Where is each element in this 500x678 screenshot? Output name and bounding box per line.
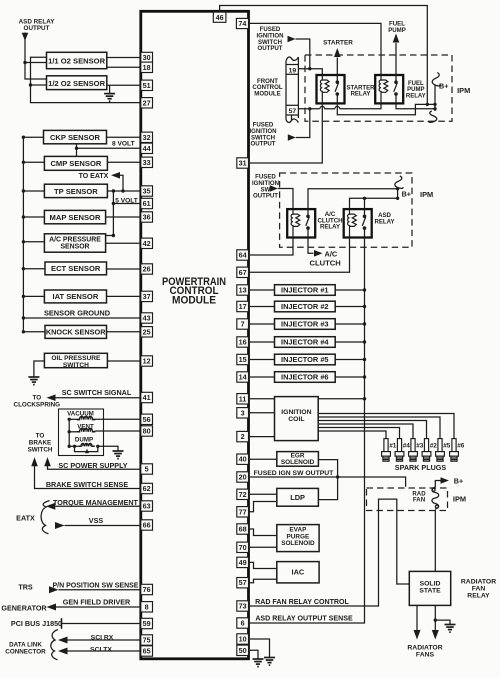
- pin 32 (PCM left): [141, 132, 153, 142]
- svg-text:36: 36: [143, 213, 151, 222]
- box IAC: [249, 562, 277, 568]
- wire ignition coil to spark plug #1: [318, 431, 386, 436]
- pin 37 (PCM left): [141, 291, 153, 301]
- pin 10 (PCM right): [237, 634, 249, 644]
- node FCM57 branch: [308, 107, 311, 110]
- node ASD rail at injector 4: [363, 340, 366, 343]
- box IGNITION COIL: [275, 397, 319, 441]
- arrow FUEL PUMP output: [393, 34, 400, 43]
- wire ignition coil to spark plug #6: [318, 414, 454, 437]
- svg-text:67: 67: [239, 268, 247, 277]
- svg-text:56: 56: [143, 415, 151, 424]
- arrow A/C clutch: [314, 250, 323, 257]
- svg-text:12: 12: [143, 357, 151, 366]
- svg-text:7: 7: [241, 320, 245, 329]
- sensor CKP SENSOR: [23, 136, 43, 138]
- ground below oil pressure switch: [28, 377, 39, 385]
- solenoid coil DUMP: [78, 444, 95, 447]
- wire pin 3 to ignition coil: [249, 412, 275, 414]
- svg-text:CKP SENSOR: CKP SENSOR: [50, 133, 101, 142]
- wire 1/1 O2 to pin 30: [107, 57, 141, 59]
- wire starter relay contact to starter: [336, 58, 338, 76]
- pin 40 (PCM right): [237, 454, 249, 464]
- svg-text:#6: #6: [457, 443, 465, 450]
- wire dump to ground: [98, 446, 118, 450]
- svg-text:8 VOLT: 8 VOLT: [112, 140, 135, 147]
- wire pin 20 fused ign sw output: [249, 477, 406, 487]
- svg-text:FUELPUMPRELAY: FUELPUMPRELAY: [406, 81, 426, 100]
- wire SC power supply pin 5: [48, 466, 141, 469]
- pin 15 (PCM right): [237, 354, 249, 364]
- svg-text:1/2 O2 SENSOR: 1/2 O2 SENSOR: [48, 79, 105, 88]
- wire SCI RX pin 75: [68, 639, 141, 641]
- pin 31 (PCM right): [237, 158, 249, 168]
- wire fuel pump relay contact to pump: [395, 43, 397, 75]
- pin 68 (PCM right): [237, 524, 249, 534]
- node 5V pin61 junction: [112, 202, 115, 205]
- svg-text:16: 16: [239, 338, 247, 347]
- ground for dump solenoid: [113, 451, 124, 459]
- svg-text:BRAKE SWITCH SENSE: BRAKE SWITCH SENSE: [46, 480, 128, 489]
- wire pin 10 to ground: [249, 639, 270, 657]
- pin 27 (PCM left): [141, 98, 153, 108]
- svg-text:FUSEDIGNITIONSWITCHOUTPUT: FUSEDIGNITIONSWITCHOUTPUT: [249, 122, 276, 148]
- pin 63 (PCM left): [141, 501, 153, 511]
- svg-text:A/C: A/C: [325, 249, 338, 258]
- svg-text:INJECTOR #4: INJECTOR #4: [281, 338, 329, 347]
- svg-text:37: 37: [143, 292, 151, 301]
- svg-text:POWERTRAINCONTROLMODULE: POWERTRAINCONTROLMODULE: [162, 276, 226, 306]
- pin 30 (PCM left): [141, 52, 153, 62]
- wire pin 74 to fuel pump relay coil: [249, 23, 382, 75]
- node ASD rail at injector 2: [363, 305, 366, 308]
- pin 50 (PCM right): [237, 645, 249, 655]
- sensor MAP SENSOR: [23, 216, 44, 218]
- box SOLID STATE: [409, 571, 450, 605]
- svg-text:46: 46: [216, 13, 224, 22]
- wire FCM 57 run: [298, 108, 319, 110]
- svg-text:75: 75: [143, 636, 151, 645]
- wire SC switch signal pin 41: [56, 397, 141, 399]
- svg-text:CLUTCH: CLUTCH: [310, 259, 341, 268]
- svg-text:74: 74: [238, 19, 246, 28]
- pin 43 (PCM left): [141, 313, 153, 323]
- wire EGR to fused ign node: [318, 460, 337, 477]
- svg-text:RADIATORFANS: RADIATORFANS: [407, 644, 442, 658]
- svg-text:#1: #1: [389, 443, 397, 450]
- dump lower winding loop: [75, 446, 98, 451]
- wire B+ vertical (IPM2): [397, 187, 399, 198]
- svg-text:20: 20: [239, 473, 247, 482]
- wire A/C pressure to pin 42: [106, 242, 141, 244]
- node B+ line2: [433, 103, 436, 106]
- svg-text:14: 14: [239, 373, 247, 382]
- svg-text:49: 49: [239, 558, 247, 567]
- speed control servo solenoid box: [59, 409, 104, 456]
- node fused ign junction: [336, 475, 339, 478]
- injector box INJECTOR #6: [249, 376, 275, 378]
- wire B+ feed to solid state relay: [435, 481, 440, 488]
- svg-text:ECT SENSOR: ECT SENSOR: [51, 264, 101, 273]
- pin 33 (PCM left): [141, 157, 153, 167]
- node B+ line3: [433, 107, 436, 110]
- svg-text:INJECTOR #5: INJECTOR #5: [281, 355, 329, 364]
- svg-text:TRS: TRS: [18, 583, 33, 592]
- bottom connector squiggle (IPM 1): [428, 111, 437, 122]
- arrow SC power to brake switch: [44, 457, 51, 466]
- svg-text:TO EATX: TO EATX: [79, 173, 109, 180]
- PCM outer box: [141, 11, 249, 659]
- pin 46 (PCM top): [213, 12, 226, 22]
- svg-text:KNOCK SENSOR: KNOCK SENSOR: [46, 328, 106, 337]
- wire torque management pin 63: [56, 505, 141, 507]
- svg-text:INJECTOR #2: INJECTOR #2: [281, 302, 329, 311]
- wire ignition coil to spark plug #2: [318, 421, 426, 437]
- svg-text:B+: B+: [402, 189, 411, 198]
- svg-text:SPARK PLUGS: SPARK PLUGS: [395, 463, 447, 472]
- spark plug #3: [412, 436, 414, 439]
- arrow gen field to generator: [47, 604, 57, 611]
- svg-text:57: 57: [289, 108, 297, 115]
- wire vacuum coil to pin 56: [93, 418, 141, 420]
- pin 59 (PCM left): [141, 618, 153, 628]
- box LDP: [249, 493, 277, 495]
- pin 11 (PCM right): [237, 394, 249, 404]
- svg-text:RAD FAN RELAY CONTROL: RAD FAN RELAY CONTROL: [255, 598, 349, 606]
- pin 36 (PCM left): [141, 212, 153, 222]
- svg-text:ASD RELAYOUTPUT: ASD RELAYOUTPUT: [19, 19, 56, 33]
- wire CKP to pin 32: [107, 136, 141, 138]
- box EGR SOLENOID: [249, 458, 277, 460]
- svg-text:11: 11: [239, 394, 247, 403]
- relay A/C CLUTCH RELAY: [287, 209, 315, 237]
- svg-text:#2: #2: [430, 443, 438, 450]
- relay FUEL PUMP RELAY: [375, 75, 403, 103]
- wire 5 volt bus: [106, 191, 114, 236]
- svg-text:2: 2: [241, 432, 245, 441]
- svg-text:5: 5: [145, 465, 149, 474]
- spark plug #6: [453, 436, 455, 439]
- arrow down from ASD RELAY OUTPUT: [22, 33, 29, 41]
- node ASD rail at injector 3: [363, 322, 366, 325]
- arrow brake switch sense: [31, 457, 38, 466]
- node ASD rail at pin 11: [363, 397, 366, 400]
- node 5V at TP wire: [112, 189, 115, 192]
- svg-text:3: 3: [241, 408, 245, 417]
- svg-text:INJECTOR #3: INJECTOR #3: [281, 320, 329, 329]
- pin 61 (PCM left): [141, 198, 153, 208]
- pin 57 (PCM right): [237, 578, 249, 588]
- wire fused ign to A/C clutch relay coil: [278, 189, 293, 214]
- wire brake switch sense pin 62: [35, 466, 141, 489]
- wire solid state to radiator fans left: [416, 605, 418, 630]
- arrow radiator fan left: [414, 630, 421, 640]
- svg-text:72: 72: [239, 490, 247, 499]
- wire ignition coil to spark plug #3: [318, 424, 413, 436]
- pin 70 (PCM right): [237, 542, 249, 552]
- svg-text:51: 51: [143, 81, 151, 90]
- svg-text:77: 77: [239, 507, 247, 516]
- svg-text:SC SWITCH SIGNAL: SC SWITCH SIGNAL: [62, 388, 132, 397]
- pin 6 (PCM right): [237, 618, 249, 628]
- svg-text:IPM: IPM: [420, 190, 433, 199]
- sensor KNOCK SENSOR: [23, 331, 45, 333]
- svg-text:STARTER: STARTER: [323, 39, 353, 46]
- pin 67 (PCM right): [237, 267, 249, 277]
- svg-text:33: 33: [143, 158, 151, 167]
- wire starter contact to B+ rail: [337, 103, 435, 115]
- wire pin 2 to ignition coil: [249, 436, 275, 438]
- wire pin 11 to ASD rail: [249, 398, 365, 400]
- svg-text:26: 26: [143, 265, 151, 274]
- arrow SCI RX: [58, 637, 68, 644]
- svg-text:65: 65: [143, 647, 151, 656]
- svg-text:FUSEDIGNITIONSWOUTPUT: FUSEDIGNITIONSWOUTPUT: [252, 174, 279, 200]
- svg-text:TORQUE MANAGEMENT: TORQUE MANAGEMENT: [53, 498, 139, 507]
- arrow radiator fan right: [432, 630, 439, 640]
- injector box INJECTOR #3: [249, 323, 275, 325]
- svg-text:8: 8: [145, 602, 149, 611]
- sensor ECT SENSOR: [23, 268, 45, 270]
- PCI bus terminal bar: [61, 618, 63, 629]
- pin 51 (PCM left): [141, 80, 153, 90]
- pin 42 (PCM left): [141, 238, 153, 248]
- wire ECT to pin 26: [107, 268, 141, 270]
- arrow P/N position from TRS: [49, 586, 59, 593]
- sensor 1/1 O2 SENSOR: [47, 52, 107, 68]
- svg-text:61: 61: [143, 199, 151, 208]
- pin 2 (PCM right): [237, 431, 249, 441]
- wire CMP to pin 33: [107, 161, 140, 163]
- svg-text:15: 15: [239, 355, 247, 364]
- wire gen field driver pin 8: [56, 606, 141, 608]
- wire ASD relay output rail: [249, 238, 365, 624]
- wire SCI TX pin 65: [68, 650, 141, 652]
- arrow fused ign to starter relay coil: [288, 36, 296, 42]
- pin 17 (PCM right): [237, 301, 249, 311]
- pin 25 (PCM left): [141, 327, 153, 337]
- brace EATX: [41, 501, 49, 534]
- node 8 volt junction: [75, 147, 78, 150]
- pin 65 (PCM left): [141, 646, 153, 656]
- sensor IAT SENSOR: [23, 295, 44, 297]
- node FCM19/fused ign junction: [308, 67, 311, 70]
- node 46-wire joins B+ rail: [426, 103, 429, 106]
- svg-text:17: 17: [239, 302, 247, 311]
- node O2 feed junction: [23, 61, 26, 64]
- IPM box 2 (A/C clutch / ASD relays): [280, 173, 412, 247]
- sc solenoid feed bus: [68, 419, 70, 446]
- ground radiator fan: [445, 625, 456, 633]
- node ASD rail at injector 1: [363, 288, 366, 291]
- svg-text:CMP SENSOR: CMP SENSOR: [50, 159, 101, 168]
- svg-text:76: 76: [143, 585, 151, 594]
- svg-text:TOBRAKESWITCH: TOBRAKESWITCH: [28, 432, 53, 453]
- pin 41 (PCM left): [141, 392, 153, 402]
- pin 75 (PCM left): [141, 635, 153, 645]
- wire O2 return bus: [31, 57, 141, 102]
- pin 73 (PCM right): [237, 601, 249, 611]
- svg-text:RADFAN: RADFAN: [412, 490, 426, 503]
- wire KNOCK to pin 25: [107, 331, 141, 333]
- svg-text:62: 62: [143, 484, 151, 493]
- svg-text:ASDRELAY: ASDRELAY: [374, 212, 394, 225]
- pin 64 (PCM right): [237, 250, 249, 260]
- pin 74 (PCM right top): [236, 18, 248, 28]
- box EVAP PURGE SOLENOID: [249, 529, 277, 536]
- injector box INJECTOR #1: [249, 289, 275, 291]
- svg-text:41: 41: [143, 393, 151, 402]
- svg-text:57: 57: [239, 578, 247, 587]
- svg-text:40: 40: [239, 455, 247, 464]
- solenoid coil VACUUM: [77, 416, 96, 419]
- node 5V at AC pressure: [112, 234, 115, 237]
- switch OIL PRESSURE SWITCH: [44, 353, 107, 367]
- pin 44 (PCM left): [141, 143, 153, 153]
- wire oil pressure to ground: [34, 361, 45, 377]
- svg-text:IAT SENSOR: IAT SENSOR: [52, 292, 98, 301]
- svg-text:INJECTOR #6: INJECTOR #6: [281, 373, 329, 382]
- wire sensor ground to pin 43: [23, 317, 140, 319]
- pin 8 (PCM left): [141, 602, 153, 612]
- wire O2 ground stub: [109, 85, 111, 93]
- wire solid state to radiator fans right: [434, 605, 436, 630]
- svg-text:1/1 O2 SENSOR: 1/1 O2 SENSOR: [48, 56, 105, 65]
- svg-text:68: 68: [239, 525, 247, 534]
- pin 16 (PCM right): [237, 337, 249, 347]
- node radiator fan ground branch: [434, 618, 437, 621]
- wire to 1/1 O2 heater: [25, 62, 47, 64]
- svg-text:31: 31: [239, 159, 247, 168]
- wire PCI bus pin 59: [62, 623, 141, 625]
- svg-text:66: 66: [143, 521, 151, 530]
- svg-text:RADIATORFANRELAY: RADIATORFANRELAY: [461, 578, 496, 599]
- svg-text:STARTERRELAY: STARTERRELAY: [347, 85, 376, 97]
- svg-text:FUSED IGN SW OUTPUT: FUSED IGN SW OUTPUT: [254, 470, 335, 477]
- arrow VSS from EATX: [55, 522, 65, 529]
- pin 14 (PCM right): [237, 372, 249, 382]
- svg-text:A/CCLUTCHRELAY: A/CCLUTCHRELAY: [317, 211, 342, 231]
- spark plug #4: [399, 436, 401, 439]
- injector box INJECTOR #2: [249, 306, 275, 308]
- svg-text:13: 13: [239, 286, 247, 295]
- svg-text:FUELPUMP: FUELPUMP: [388, 21, 406, 34]
- svg-text:50: 50: [239, 646, 247, 655]
- svg-text:43: 43: [143, 314, 151, 323]
- svg-text:35: 35: [143, 187, 151, 196]
- svg-text:30: 30: [143, 53, 151, 62]
- relay STARTER RELAY: [317, 75, 345, 103]
- wire 1/1 O2 to pin 18: [107, 66, 141, 68]
- node ASD rail at injector 5: [363, 358, 366, 361]
- wire MAP to pin 36: [106, 216, 141, 218]
- svg-text:64: 64: [239, 251, 247, 260]
- wire LDP to fused ign node: [318, 477, 337, 500]
- svg-text:SENSOR GROUND: SENSOR GROUND: [44, 308, 111, 317]
- svg-text:59: 59: [143, 619, 151, 628]
- pin 35 (PCM left): [141, 186, 153, 196]
- pin 18 (PCM left): [141, 62, 153, 72]
- pin 13 (PCM right): [237, 285, 249, 295]
- svg-text:TP SENSOR: TP SENSOR: [54, 187, 98, 196]
- pin 7 (PCM right): [237, 319, 249, 329]
- arrow STARTER output: [334, 48, 341, 57]
- svg-text:DATA LINKCONNECTOR: DATA LINKCONNECTOR: [5, 641, 46, 655]
- IPM box (starter/fuel pump relays): [305, 55, 452, 121]
- svg-text:#4: #4: [403, 443, 411, 450]
- wire A/C relay contact to A/C clutch: [308, 238, 314, 254]
- arrow torque management to EATX: [46, 503, 56, 510]
- svg-text:SOLIDSTATE: SOLIDSTATE: [419, 580, 441, 594]
- arrow SCI TX: [58, 648, 68, 655]
- svg-text:FUSEDIGNITIONSWITCHOUTPUT: FUSEDIGNITIONSWITCHOUTPUT: [256, 26, 283, 52]
- svg-text:63: 63: [143, 502, 151, 511]
- svg-text:#5: #5: [443, 443, 451, 450]
- svg-text:B+: B+: [454, 476, 463, 485]
- svg-text:B+: B+: [439, 81, 448, 90]
- wire fused ign arrow (lower) to FCM57 node: [296, 109, 310, 138]
- wire ASD coil to pin 67: [249, 238, 350, 273]
- wire B+ vertical (IPM 1): [434, 86, 436, 112]
- svg-text:IPM: IPM: [457, 86, 470, 95]
- spark plug #2: [426, 436, 428, 439]
- pin 66 (PCM left): [141, 520, 153, 530]
- svg-text:73: 73: [239, 602, 247, 611]
- node EATX tap: [121, 189, 124, 192]
- node O2 return junction: [29, 83, 32, 86]
- arrow B+ radiator fan: [441, 477, 450, 484]
- arrow SC switch signal to clockspring: [47, 394, 56, 401]
- sensor CMP SENSOR: [23, 161, 44, 163]
- arrow TO EATX: [111, 172, 120, 179]
- relay ASD RELAY: [344, 209, 372, 237]
- svg-text:IAC: IAC: [292, 568, 305, 577]
- pin 80 (PCM left): [141, 426, 153, 436]
- svg-text:80: 80: [143, 427, 151, 436]
- wire P/N position pin 76: [59, 589, 141, 591]
- svg-text:70: 70: [239, 543, 247, 552]
- node ASD rail at injector 6: [363, 375, 366, 378]
- svg-text:GEN FIELD DRIVER: GEN FIELD DRIVER: [63, 598, 131, 607]
- svg-text:MAP SENSOR: MAP SENSOR: [50, 213, 101, 222]
- pin 72 (PCM right): [237, 489, 249, 499]
- sensor A/C PRESSURE SENSOR: [23, 241, 44, 243]
- svg-text:6: 6: [241, 619, 245, 628]
- svg-text:27: 27: [143, 98, 151, 107]
- svg-text:18: 18: [143, 63, 151, 72]
- ground pin 50: [253, 659, 264, 667]
- wire 5V to pin 61: [113, 203, 140, 205]
- B+ connector squiggle (IPM 1): [432, 73, 441, 86]
- svg-text:42: 42: [143, 239, 151, 248]
- wire breaker to solid state relay: [434, 510, 436, 572]
- sensor 1/2 O2 SENSOR: [47, 76, 107, 90]
- wire vent coil to pin 80: [93, 430, 97, 433]
- wire EATX tap from TP signal: [120, 175, 123, 191]
- spark plug #5: [439, 436, 441, 439]
- injector box INJECTOR #5: [249, 359, 275, 361]
- svg-text:IPM: IPM: [453, 494, 466, 503]
- brace DATA LINK CONNECTOR: [51, 630, 58, 660]
- svg-text:LDP: LDP: [290, 493, 305, 502]
- svg-text:SC POWER SUPPLY: SC POWER SUPPLY: [58, 461, 127, 470]
- wire VSS pin 66: [65, 525, 141, 527]
- circuit breaker radiator fan: [432, 487, 439, 509]
- ground below 1/2 O2 sensor: [104, 94, 115, 102]
- arrow fused ign (lower): [288, 134, 296, 140]
- B+ connector squiggle (IPM 2): [395, 176, 404, 188]
- arrow fused ign sw output (IPM2): [270, 185, 278, 191]
